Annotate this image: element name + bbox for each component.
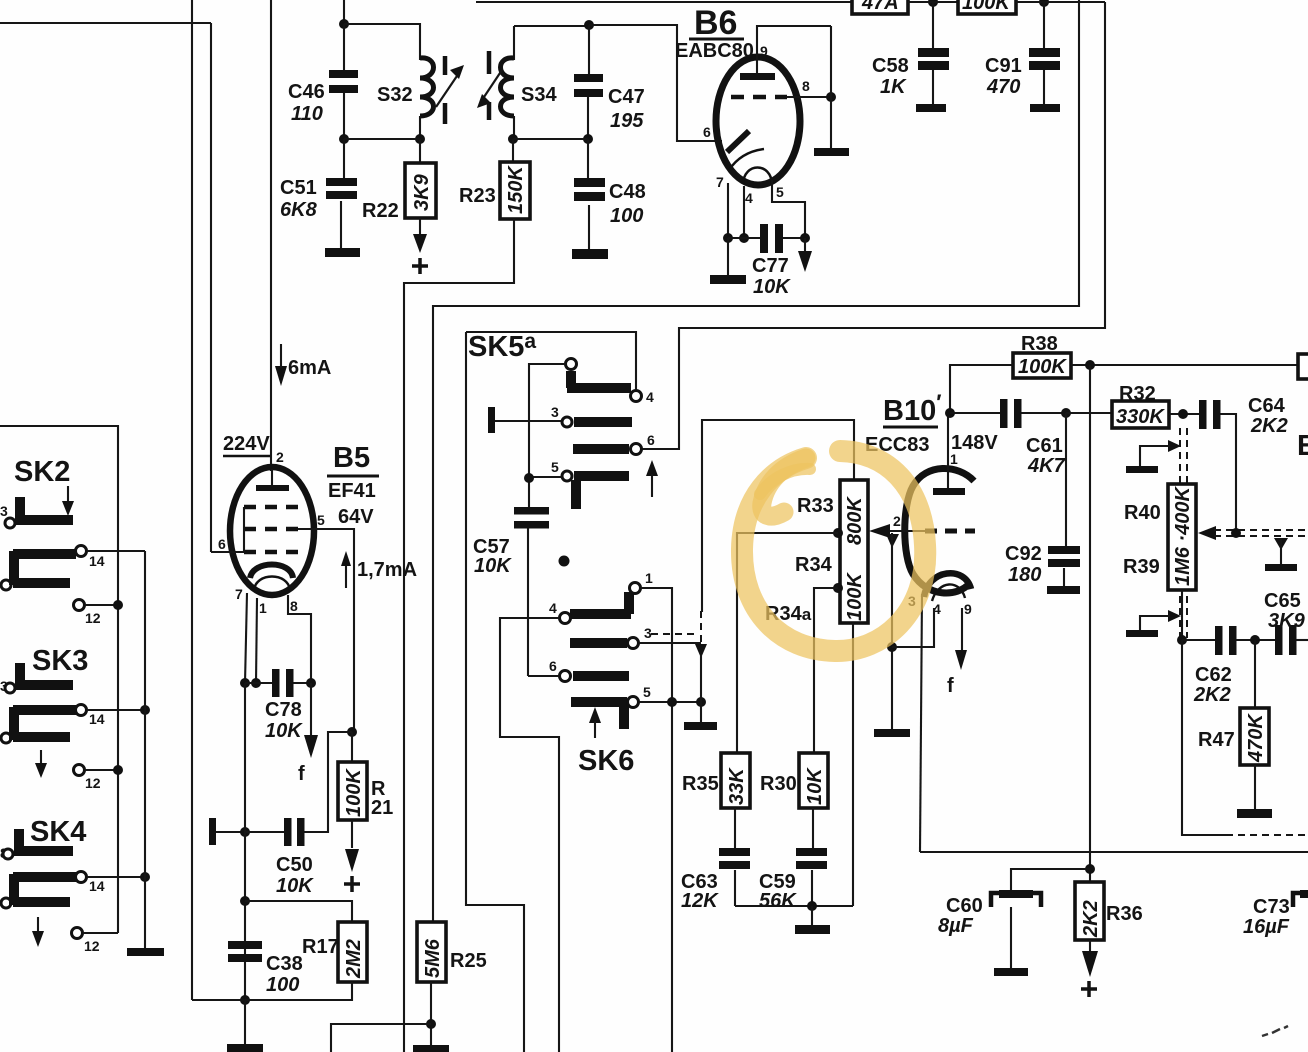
svg-text:5: 5	[776, 184, 784, 200]
SK2 actuate arrow	[67, 486, 69, 503]
capacitor C62	[1182, 626, 1237, 706]
svg-text:33K: 33K	[726, 767, 748, 805]
svg-text:4: 4	[646, 389, 654, 405]
capacitor C64	[1199, 395, 1288, 437]
B6 grid (pin 8) dashed	[731, 95, 787, 100]
B5 pin 5 wire to right	[298, 529, 354, 732]
resistor R47 470K	[1198, 640, 1269, 765]
node C78 right	[306, 678, 316, 688]
svg-text:4: 4	[745, 190, 753, 206]
svg-text:S32: S32	[377, 84, 413, 106]
svg-text:100: 100	[266, 974, 299, 996]
capacitor C77	[728, 224, 805, 298]
svg-text:10K: 10K	[753, 276, 791, 298]
wire pot bottom to C62 node	[1181, 590, 1183, 640]
node C78 left pins	[240, 678, 250, 688]
svg-text:SK4: SK4	[30, 816, 86, 848]
SK6 contact 4	[560, 613, 571, 624]
ground stub on wiper bus	[1274, 538, 1288, 550]
svg-text:5: 5	[551, 459, 559, 475]
wire R33 top from SK5a region	[702, 420, 854, 612]
svg-text:SK3: SK3	[32, 645, 88, 677]
potentiometer body 1M6/400K	[1123, 484, 1196, 590]
SK6 contact 3	[570, 638, 627, 648]
resistor R32 330K	[1112, 383, 1169, 428]
svg-text:5: 5	[643, 684, 651, 700]
arrow 1,7mA	[341, 551, 417, 588]
resistor R23 150K	[459, 139, 530, 219]
S34 adjustable core (dashed) with arrow	[477, 51, 502, 120]
wire contact 5 to link node	[639, 701, 701, 703]
svg-text:10K: 10K	[265, 720, 303, 742]
wire C63/C59 bottom bus	[735, 905, 853, 907]
wire pin 4 down to node	[892, 608, 934, 647]
wire B5 pin 8 down to C78 right	[288, 595, 311, 683]
svg-text:64V: 64V	[338, 506, 374, 528]
capacitor C38	[228, 941, 303, 996]
resistor R22 3K9	[362, 139, 436, 222]
wire contact 3 to link	[639, 642, 701, 644]
wire R21 node to C50	[304, 732, 352, 832]
wire pot bottom node down and right (dashed tail)	[1182, 640, 1226, 835]
svg-text:6: 6	[549, 658, 557, 674]
svg-text:S34: S34	[521, 84, 557, 106]
svg-text:1M6 ·400K: 1M6 ·400K	[1172, 486, 1194, 586]
node pot top	[1178, 409, 1188, 419]
svg-text:R25: R25	[450, 950, 487, 972]
SK3 contact 12	[74, 765, 85, 776]
svg-text:5M6: 5M6	[422, 938, 444, 978]
node C64 on wiper bus	[1231, 528, 1241, 538]
grid return line with wiper mark	[886, 534, 899, 548]
wafer index dot	[559, 556, 570, 567]
resistor R36 2K2	[1075, 882, 1143, 940]
wire B5 anode supply rail (6mA)	[270, 0, 272, 471]
arrow SK6 actuator	[589, 707, 601, 723]
svg-text:10K: 10K	[474, 555, 512, 577]
ground B6 pin 8	[814, 148, 849, 156]
ground below C48	[572, 249, 608, 259]
wire main left node down	[244, 683, 246, 1000]
svg-text:100K: 100K	[844, 572, 866, 621]
mechanical link dashed with arrow	[651, 611, 707, 722]
svg-text:6mA: 6mA	[288, 357, 331, 379]
label 224V	[223, 433, 270, 456]
switch SK4	[0, 816, 150, 954]
node top of C46/S32	[339, 19, 349, 29]
ground below C51	[325, 248, 360, 257]
svg-text:100: 100	[610, 205, 643, 227]
arrow supply below R36	[1089, 940, 1091, 952]
wire cathode rail to right edge	[920, 851, 1308, 853]
svg-text:R39: R39	[1123, 556, 1160, 578]
tube B5 labels	[327, 442, 379, 528]
svg-text:12: 12	[85, 775, 101, 791]
switch SK2	[0, 456, 145, 626]
node C62/C65/R47	[1236, 639, 1275, 641]
svg-text:12: 12	[84, 938, 100, 954]
svg-text:6: 6	[647, 432, 655, 448]
svg-text:12: 12	[85, 610, 101, 626]
wire R34a bottom down to C63/C59 bus	[852, 623, 854, 906]
svg-text:110: 110	[291, 103, 323, 125]
wire node to C60	[1011, 869, 1090, 891]
svg-text:8µF: 8µF	[938, 915, 974, 937]
svg-text:10K: 10K	[804, 767, 826, 805]
svg-text:C91: C91	[985, 55, 1022, 77]
SK3 moving contact U	[1, 733, 11, 743]
svg-text:1: 1	[259, 600, 267, 616]
capacitor C48	[574, 139, 646, 249]
resistor 100K (cut by top edge)	[958, 0, 1016, 14]
inductor S34	[501, 58, 558, 139]
resistor stack R33 800K / R34 100K	[840, 480, 868, 623]
tube B6 envelope	[716, 57, 800, 185]
svg-text:R40: R40	[1124, 502, 1161, 524]
svg-text:C78: C78	[265, 699, 302, 721]
node R34/R34a tap	[833, 583, 843, 593]
plus below R21	[344, 876, 360, 892]
capacitor C46	[288, 24, 358, 139]
B5 grid bus inside	[243, 507, 245, 552]
arrow 6mA on anode rail	[275, 344, 331, 386]
wire top-left horizontal bus	[0, 22, 211, 24]
arrow supply below C77 right node	[804, 238, 806, 252]
B5 anode plate	[256, 485, 289, 491]
svg-text:C38: C38	[266, 953, 303, 975]
svg-text:R33: R33	[797, 495, 834, 517]
svg-text:R35: R35	[682, 773, 719, 795]
capacitor C51	[280, 139, 357, 248]
node C77 left / pins 7,4	[723, 233, 733, 243]
svg-text:E: E	[1297, 430, 1308, 462]
arrow f below C78	[310, 683, 312, 737]
svg-text:C46: C46	[288, 81, 325, 103]
svg-text:3: 3	[551, 404, 559, 420]
SK6 contact 6	[560, 671, 571, 682]
svg-text:C60: C60	[946, 895, 983, 917]
SK4 actuate arrow	[37, 917, 39, 933]
svg-text:2K2: 2K2	[1193, 684, 1231, 706]
svg-text:C61: C61	[1026, 435, 1063, 457]
capacitor C61	[950, 399, 1066, 477]
svg-text:R36: R36	[1106, 903, 1143, 925]
node R36 top	[1085, 864, 1095, 874]
svg-text:R22: R22	[362, 200, 399, 222]
tube B10 envelope (C shape)	[905, 468, 974, 593]
svg-text:800K: 800K	[844, 496, 866, 545]
terminal bar left of C50	[209, 818, 216, 845]
B6 heater dome	[743, 168, 772, 185]
wire bottom bus C38/R17	[192, 982, 352, 1000]
wire grid to R33 tap with arrow	[886, 530, 925, 532]
capacitor C91	[985, 2, 1060, 104]
node C57 riser	[524, 473, 534, 483]
node C77 right	[800, 233, 810, 243]
B5 cathode dome	[250, 565, 293, 579]
node C47 top	[584, 20, 594, 30]
svg-text:2M2: 2M2	[343, 939, 365, 979]
wire tap to R35 column	[737, 533, 838, 753]
svg-text:R30: R30	[760, 773, 797, 795]
svg-text:2: 2	[893, 513, 901, 529]
node pot bottom	[1177, 635, 1187, 645]
wire R23 bottom going to left rail	[404, 219, 514, 1052]
wire joining S34 and C47 bottoms	[513, 138, 588, 140]
B10 anode	[933, 488, 965, 495]
svg-text:R23: R23	[459, 185, 496, 207]
resistor R38 100K	[1013, 333, 1071, 378]
svg-text:C62: C62	[1195, 664, 1232, 686]
wire C46 top rail	[343, 0, 345, 24]
ground below R47	[1254, 765, 1256, 809]
resistor R30 10K	[760, 753, 828, 808]
wire B5 pin 7 down	[245, 593, 247, 683]
B5 pin 6 wire to left rail	[211, 551, 244, 553]
svg-text:9: 9	[760, 43, 768, 59]
ground below C59	[811, 906, 813, 925]
ground below B6 pin 7	[710, 275, 746, 284]
wire left rail long	[191, 0, 193, 1000]
svg-text:330K: 330K	[1116, 406, 1165, 428]
S32 adjustable core (dashed) with arrow	[436, 56, 464, 124]
wire SK 14-rail to ground	[144, 551, 146, 948]
svg-text:R34: R34	[795, 554, 833, 576]
wire right rail A down-left to 5M6 column	[433, 0, 1079, 922]
B5 heater dome	[254, 577, 290, 591]
capacitor C59	[759, 808, 827, 912]
svg-text:3K9: 3K9	[411, 173, 433, 211]
resistor 47A (cut by top edge)	[852, 0, 908, 14]
SK2 wire pin14 to rail	[87, 550, 145, 552]
wire 5M6 bottom to node	[430, 982, 432, 1045]
ground below C91	[1030, 104, 1060, 112]
svg-text:100K: 100K	[962, 0, 1011, 14]
wire pin 3 cathode down to long rail	[920, 594, 922, 852]
node 5M6 bottom bus	[426, 1019, 436, 1029]
node S34/C47 bottom junction	[508, 134, 518, 144]
ground SK rail	[127, 948, 164, 956]
ground below C58	[916, 104, 946, 112]
wire joining C46 and S32 bottoms	[344, 138, 420, 140]
capacitor C58	[872, 2, 949, 104]
svg-text:12K: 12K	[681, 890, 719, 912]
wire B5 pin 1 down	[256, 598, 257, 683]
svg-text:150K: 150K	[505, 165, 527, 214]
svg-text:148V: 148V	[951, 432, 998, 454]
wire C60 to ground	[1010, 907, 1012, 968]
wire junction to R32	[1066, 412, 1112, 414]
svg-text:100K: 100K	[1018, 356, 1067, 378]
svg-text:f: f	[298, 763, 305, 785]
svg-text:14: 14	[89, 553, 105, 569]
wire R38 left to B10 anode	[950, 365, 1013, 413]
arrow supply below R21	[351, 820, 353, 848]
tube B10 labels	[865, 390, 998, 456]
svg-text:1: 1	[950, 451, 958, 467]
svg-text:8: 8	[802, 78, 810, 94]
svg-text:R17: R17	[302, 936, 339, 958]
svg-text:C64: C64	[1248, 395, 1286, 417]
svg-text:4K7: 4K7	[1027, 455, 1066, 477]
wire SK5a frame top	[466, 332, 636, 391]
resistor at top right edge (cut)	[1298, 354, 1308, 379]
B6 anode plate and pin 9 lead	[740, 73, 775, 80]
wire C64 right down to wiper bus	[1220, 414, 1236, 533]
svg-text:C50: C50	[276, 854, 313, 876]
svg-text:3: 3	[644, 625, 652, 641]
svg-text:470K: 470K	[1245, 713, 1267, 763]
wire node to S32 top	[344, 24, 420, 60]
wiper arrow middle (to grid bus)	[1198, 526, 1216, 540]
ground wiper top	[1126, 466, 1158, 473]
ground below C38	[227, 1044, 263, 1052]
wire contact 4 to left and bottom	[500, 618, 559, 1052]
wire right rail B down-left to SK5a riser	[642, 2, 1105, 449]
svg-text:C92: C92	[1005, 543, 1042, 565]
plus sign below R22	[412, 258, 428, 274]
capacitor C63	[681, 808, 750, 912]
resistor R17 2M2	[302, 922, 367, 982]
svg-text:SK6: SK6	[578, 745, 634, 777]
plus below R36	[1081, 981, 1097, 997]
terminal bar at SK5a contact 3	[488, 407, 495, 433]
svg-text:21: 21	[371, 797, 393, 819]
wire tap to R30 column	[814, 588, 838, 753]
node top bus	[928, 0, 938, 7]
svg-text:C51: C51	[280, 177, 317, 199]
svg-text:6: 6	[218, 536, 226, 552]
dashed gang lines	[1180, 428, 1187, 638]
resistor R35 33K	[682, 753, 750, 808]
svg-text:C77: C77	[752, 255, 789, 277]
svg-text:180: 180	[1008, 564, 1041, 586]
node C50 left	[240, 827, 250, 837]
svg-text:R47: R47	[1198, 729, 1235, 751]
SK5a contact 6 with bar	[573, 444, 629, 454]
capacitor C60 electrolytic	[938, 890, 1041, 937]
ground wiper bottom	[1126, 630, 1158, 637]
capacitor C73 (cut at right edge)	[1243, 890, 1308, 938]
svg-text:100K: 100K	[343, 768, 365, 817]
wire rail to B5 grid pin6	[210, 23, 212, 552]
svg-text:7: 7	[716, 174, 724, 190]
SK5a contact top-left blade	[566, 359, 577, 370]
wire pin7 node to ground	[727, 238, 729, 275]
wire R38 right to rail	[1071, 364, 1308, 366]
node C38 bottom	[240, 995, 250, 1005]
wire node to R17	[245, 901, 352, 922]
capacitor C92	[1005, 413, 1080, 586]
wire bus at y1024	[331, 1024, 431, 1052]
wire SK5a left frame down to bottom	[466, 332, 524, 1052]
svg-text:3K9: 3K9	[1268, 610, 1306, 632]
wiper arrow bottom	[1168, 610, 1181, 622]
svg-text:5: 5	[317, 512, 325, 528]
svg-text:1,7mA: 1,7mA	[357, 559, 417, 581]
resistor R25 5M6	[417, 922, 487, 982]
svg-text:14: 14	[89, 878, 105, 894]
wire top supply bus	[476, 1, 852, 3]
SK2 moving contact U	[1, 580, 11, 590]
switch SK3	[0, 645, 150, 791]
svg-text:47A: 47A	[861, 0, 899, 14]
SK4 moving contact U	[1, 898, 11, 908]
node grid-return / pin4	[887, 642, 897, 652]
wire B6 pin 5 down to C77 right	[772, 180, 805, 238]
node R38 rail	[1085, 360, 1095, 370]
svg-text:8: 8	[290, 598, 298, 614]
svg-text:2K2: 2K2	[1250, 415, 1288, 437]
svg-text:B10′: B10′	[883, 390, 941, 427]
B6 diode anode stroke	[727, 131, 749, 152]
tube B5 envelope	[230, 467, 314, 595]
svg-text:16µF: 16µF	[1243, 916, 1290, 938]
svg-text:7: 7	[235, 586, 243, 602]
ground below link	[684, 722, 717, 730]
node R33/R34 tap	[833, 528, 843, 538]
wire to ground from pin8 node	[830, 26, 832, 148]
svg-text:C48: C48	[609, 181, 646, 203]
node C46/S32 bottom junction	[339, 134, 349, 144]
wire B6 pin 4 down	[743, 186, 745, 238]
svg-text:2: 2	[276, 449, 284, 465]
node C61/C92 junction	[1061, 408, 1071, 418]
B10 grid pin 2 dashed	[925, 529, 975, 534]
svg-text:6: 6	[703, 124, 711, 140]
node R21 top junction	[347, 727, 357, 737]
svg-text:SK2: SK2	[14, 456, 70, 488]
svg-text:1K: 1K	[880, 76, 907, 98]
SK4 contact 12	[72, 928, 83, 939]
stray pencil dashes (scan mark)	[1262, 1026, 1288, 1036]
svg-text:56K: 56K	[759, 890, 797, 912]
svg-text:f: f	[947, 675, 954, 697]
wiper arrow top	[1168, 440, 1181, 452]
svg-text:B5: B5	[333, 442, 370, 474]
SK5a contact 4	[631, 391, 642, 402]
wire contact 1 right and down	[641, 588, 672, 1052]
B10 cathode dome	[924, 573, 971, 597]
arrow below SK5a contact 6	[646, 460, 658, 476]
svg-text:2K2: 2K2	[1080, 900, 1102, 938]
capacitor C50	[245, 818, 314, 897]
wire contact 5 to riser	[529, 476, 562, 478]
node C59 ground	[807, 901, 817, 911]
capacitor C65	[1264, 590, 1308, 655]
svg-text:10K: 10K	[276, 875, 314, 897]
SK3 actuate arrow	[40, 750, 42, 765]
svg-text:C73: C73	[1253, 896, 1290, 918]
capacitor C57	[473, 507, 549, 676]
svg-text:1: 1	[645, 570, 653, 586]
wire top bus from S34 to C47 node	[514, 25, 589, 27]
ground below grid return	[874, 729, 910, 737]
ground below 5M6	[413, 1045, 449, 1052]
tube B6 label	[675, 4, 754, 62]
SK5a contact 3	[562, 417, 572, 427]
wire rail down to R36	[1089, 365, 1091, 882]
wire C57 to contact 6	[528, 675, 559, 677]
wire C47 node to B6 pin 6	[589, 25, 722, 141]
capacitor C47	[574, 25, 645, 138]
wire R32 right to C64	[1169, 413, 1199, 415]
svg-text:C58: C58	[872, 55, 909, 77]
svg-text:224V: 224V	[223, 433, 270, 455]
svg-text:14: 14	[89, 711, 105, 727]
wire contact top-left to C57 riser	[529, 364, 566, 507]
SK6 contact 1	[630, 583, 641, 594]
